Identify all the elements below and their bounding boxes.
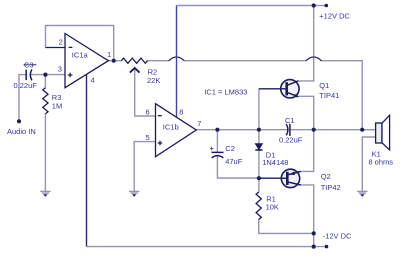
svg-text:Q2: Q2: [321, 172, 331, 181]
wire bottom -12V rail: [87, 246, 327, 248]
wire feedback line right of R2 with hops: [148, 61, 363, 130]
node Q2 base junction: [257, 176, 261, 180]
svg-text:TIP42: TIP42: [321, 183, 341, 192]
wire +12V stub: [314, 5, 327, 7]
svg-text:2: 2: [59, 37, 63, 46]
ground under IC1b pin5: [129, 191, 139, 196]
svg-text:IC1b: IC1b: [163, 122, 179, 131]
resistor R1: [256, 192, 261, 220]
node C3/R3/pin3 junction: [43, 73, 47, 77]
node R1/Q2 collector junction: [312, 231, 316, 235]
svg-text:10K: 10K: [266, 203, 279, 212]
svg-text:0.22uF: 0.22uF: [14, 81, 38, 90]
wire Q1 emitter down to output node: [298, 96, 314, 129]
wire pin4 -12V drop: [86, 74, 88, 246]
svg-text:1M: 1M: [52, 102, 62, 111]
diode D1: [255, 144, 262, 150]
capacitor C2: [212, 152, 224, 158]
svg-text:+: +: [210, 144, 215, 153]
wire Q2 collector to -12V: [301, 185, 314, 247]
svg-text:-12V DC: -12V DC: [323, 231, 352, 240]
node -12V rail junction: [312, 245, 316, 249]
svg-text:1N4148: 1N4148: [262, 158, 288, 167]
svg-text:7: 7: [197, 119, 201, 128]
svg-text:IC1 = LM833: IC1 = LM833: [204, 87, 247, 96]
svg-text:8: 8: [179, 108, 183, 117]
ground under speaker: [357, 191, 367, 196]
wire R1 bottom lead: [259, 220, 314, 234]
svg-text:3: 3: [58, 64, 62, 73]
node speaker/feedback junction: [360, 128, 364, 132]
svg-text:C2: C2: [225, 144, 235, 153]
svg-text:TIP41: TIP41: [319, 91, 339, 100]
wire Q2 emitter up to output node: [301, 130, 314, 172]
wire C3 right lead to pin 3: [31, 74, 65, 76]
svg-text:1: 1: [107, 50, 111, 59]
wire C3 left lead and audio input drop: [19, 75, 26, 121]
wire pin5 to ground riser: [134, 142, 155, 192]
node +12V terminal: [325, 4, 329, 8]
ground under R3: [40, 191, 50, 196]
op-amp U1a IC1a: [65, 34, 108, 88]
wire +12V vertical drop to Q1 collector: [298, 6, 313, 81]
wire top +12V rail: [177, 5, 314, 7]
wire IC1a feedback box: [46, 26, 114, 61]
node output/emitters junction: [312, 128, 316, 132]
svg-text:0.22uF: 0.22uF: [279, 136, 303, 145]
resistor R3: [43, 88, 48, 114]
node C2 junction: [215, 128, 219, 132]
potentiometer arrow to R2: [130, 68, 140, 73]
resistor R2: [121, 58, 147, 63]
svg-text:C1: C1: [285, 116, 295, 125]
node audio input terminal: [17, 119, 21, 123]
svg-text:5: 5: [146, 133, 150, 142]
svg-text:IC1a: IC1a: [72, 51, 89, 60]
wire IC1a output to R2: [108, 60, 121, 62]
svg-text:+12V DC: +12V DC: [319, 12, 350, 21]
svg-text:4: 4: [91, 76, 95, 85]
wire speaker bottom to ground: [362, 137, 375, 191]
transistor Q1: [259, 80, 299, 98]
svg-text:47uF: 47uF: [225, 157, 243, 166]
svg-text:22K: 22K: [147, 76, 160, 85]
speaker K1: [376, 115, 390, 150]
transistor Q2: [259, 169, 301, 187]
wire hop over +12V line: [306, 57, 322, 61]
node -12V terminal: [325, 245, 329, 249]
node D1/Q1 base junction: [257, 128, 261, 132]
wire pin6 to R2 arrow riser: [135, 68, 156, 116]
node +12V rail corner junction: [312, 3, 316, 7]
svg-text:8 ohms: 8 ohms: [368, 158, 393, 167]
capacitor C3: [26, 69, 32, 80]
wire C2 leads: [217, 130, 259, 178]
wire mid vertical D1 leads: [258, 89, 260, 192]
wire pin2 stub: [46, 47, 66, 49]
node IC1a out junction: [112, 59, 116, 63]
svg-text:Q1: Q1: [319, 81, 329, 90]
svg-text:Audio IN: Audio IN: [7, 127, 36, 136]
op-amp U1b IC1b: [156, 104, 197, 157]
capacitor C1: [286, 124, 290, 136]
wire hop over pin8 line: [169, 57, 185, 61]
wire R3 leads: [44, 75, 46, 192]
wire output to speaker: [362, 129, 375, 131]
svg-text:6: 6: [146, 107, 150, 116]
wire pin8 +12V drop: [176, 6, 178, 118]
wire IC1b output line: [196, 129, 375, 131]
